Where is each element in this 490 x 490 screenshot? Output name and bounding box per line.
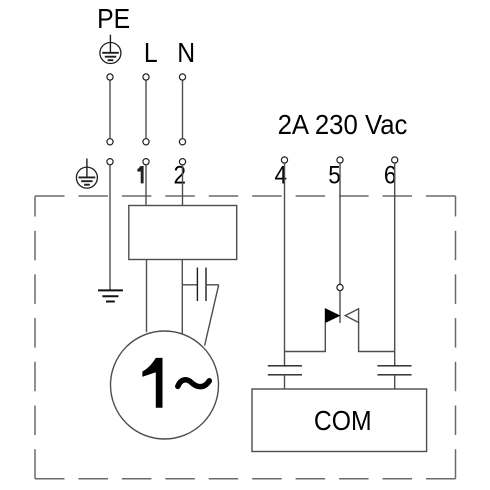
terminal PE upper: [107, 74, 113, 80]
node on wire 5: [337, 284, 343, 290]
label 5: [328, 161, 341, 189]
wire triac right branch: [359, 323, 395, 352]
label N: [177, 37, 195, 69]
label 6: [384, 161, 397, 189]
wire node to triac: [339, 291, 341, 323]
wire terminal 1 to block: [145, 165, 147, 206]
terminal 6: [392, 157, 398, 163]
svg-text:5: 5: [328, 161, 341, 189]
control block U1: [129, 206, 237, 260]
svg-text:PE: PE: [97, 3, 130, 35]
svg-text:COM: COM: [314, 405, 372, 437]
terminal PE socket: [107, 159, 113, 165]
connector N plug: [179, 139, 185, 145]
triac T1 filled triangle: [325, 309, 339, 323]
triac T1 open triangle: [345, 309, 358, 323]
label 1: [137, 166, 143, 183]
wire diagonal to motor: [205, 285, 219, 346]
label PE: [97, 3, 130, 35]
wire C3 to COM box: [394, 375, 396, 389]
wire block to motor left: [146, 260, 148, 333]
protective earth symbol chassis: [76, 159, 97, 189]
enclosure dashed border right: [455, 196, 457, 479]
wire capacitor to motor: [206, 284, 219, 286]
capacitor C1: [197, 268, 206, 302]
wire L lead: [145, 80, 147, 138]
svg-text:L: L: [144, 37, 158, 69]
wire terminal 2 to block: [182, 165, 184, 206]
connector PE plug: [107, 139, 113, 145]
label L: [144, 37, 158, 69]
terminal N upper: [179, 74, 185, 80]
svg-text:2A 230 Vac: 2A 230 Vac: [278, 109, 408, 140]
terminal 4: [281, 157, 287, 163]
svg-text:2: 2: [173, 161, 186, 189]
label COM: [314, 405, 372, 437]
enclosure dashed border bottom: [35, 478, 456, 480]
terminal 1 socket: [143, 159, 149, 165]
ground symbol: [98, 290, 123, 301]
connector L plug: [143, 139, 149, 145]
terminal 2 socket: [179, 159, 185, 165]
wire N lead: [182, 80, 184, 138]
wire PE to ground: [109, 165, 111, 290]
enclosure dashed border top: [35, 195, 456, 197]
wire terminal 6 down: [394, 163, 396, 366]
enclosure dashed border left: [34, 196, 36, 479]
capacitor C2: [268, 366, 302, 375]
wire C2 to COM box: [284, 375, 286, 389]
wire PE lead: [109, 80, 111, 138]
wire capacitor branch: [182, 284, 197, 286]
terminal 5: [337, 157, 343, 163]
wire terminal 5 upper: [339, 163, 341, 284]
wire terminal 4 down: [284, 163, 286, 366]
motor M1 circle: [111, 331, 219, 439]
protective earth symbol PE top: [100, 35, 121, 64]
wire triac left branch: [285, 323, 326, 352]
motor label tilde: [178, 380, 210, 387]
label 2A 230 Vac: [278, 109, 408, 140]
capacitor C3: [377, 366, 411, 375]
motor label 1: [142, 358, 162, 408]
wire block to motor right: [181, 260, 183, 334]
COM box: [252, 389, 427, 452]
label 4: [274, 161, 287, 189]
label 2: [173, 161, 186, 189]
svg-text:N: N: [177, 37, 195, 69]
terminal L upper: [143, 74, 149, 80]
